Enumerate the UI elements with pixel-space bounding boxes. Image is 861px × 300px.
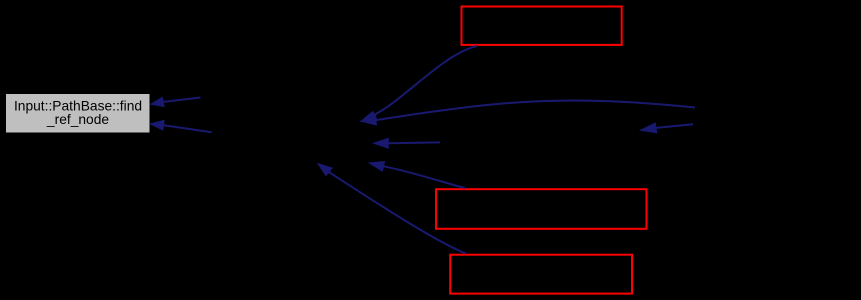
- edge E1: hidden caller M1 -> grey node (upper stub): [151, 97, 201, 106]
- edge E4: hidden far-right node R1 -> hidden node M1 (long curve, arrowhead P1b): [361, 100, 695, 125]
- node N1: Input::PathBase::find_ref_node (current node, grey): [6, 94, 150, 133]
- edge E6: hidden far-right node R1 -> hidden node N2 (arrowhead, short stub): [641, 123, 693, 133]
- red box B1 (top truncated node): [462, 7, 622, 45]
- red box B2 (middle-right truncated node): [436, 189, 647, 229]
- edge E5: hidden node N2 -> hidden node M2 (horizontal, arrowhead P2): [374, 138, 440, 148]
- svg-text:_ref_node: _ref_node: [46, 112, 109, 127]
- edge E9: red box B1 -> hidden node M1 (curved, arrowhead P1a): [361, 46, 477, 121]
- edge E7: red box B2 -> hidden node M3 (arrowhead P3): [369, 162, 465, 189]
- edge E2: hidden caller M2 -> grey node (lower stub): [150, 120, 211, 132]
- red box B3 (bottom truncated node): [450, 255, 632, 294]
- edge E8: red box B3 -> hidden node M2 bottom (curved, arrowhead P4): [318, 164, 466, 254]
